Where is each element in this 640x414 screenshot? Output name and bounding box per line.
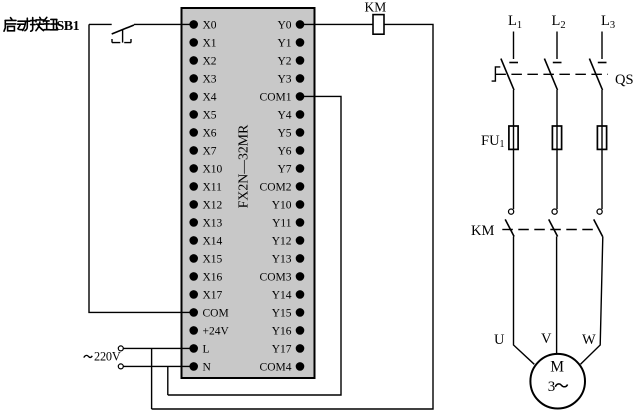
- svg-text:X12: X12: [203, 199, 223, 211]
- wire: L3 incoming lead: [601, 32, 603, 60]
- terminal Y13 (PLC output side): [272, 253, 305, 265]
- svg-text:Y11: Y11: [272, 217, 292, 229]
- terminal Y3 (PLC output side): [277, 73, 304, 85]
- QS pole 2 fixed contact bar: [553, 62, 562, 64]
- svg-text:X17: X17: [203, 289, 223, 301]
- terminal COM (PLC input side): [189, 307, 228, 319]
- svg-text:Y17: Y17: [272, 343, 292, 355]
- node L1 (phase label): [508, 13, 522, 31]
- svg-text:3: 3: [548, 379, 556, 395]
- PLC model label FX2N-32MR: [236, 124, 251, 208]
- terminal X7 (PLC input side): [189, 145, 216, 157]
- terminal +24V (PLC input side): [189, 325, 229, 337]
- terminal X5 (PLC input side): [189, 109, 216, 121]
- terminal Y12 (PLC output side): [272, 235, 305, 247]
- label KM (coil): [365, 0, 387, 15]
- svg-text:Y10: Y10: [272, 199, 292, 211]
- svg-text:Y6: Y6: [277, 145, 291, 157]
- svg-text:X4: X4: [203, 91, 217, 103]
- svg-text:Y5: Y5: [277, 127, 291, 139]
- svg-text:COM2: COM2: [260, 181, 292, 193]
- terminal Y14 (PLC output side): [272, 289, 305, 301]
- svg-text:COM: COM: [203, 307, 229, 319]
- terminal X3 (PLC input side): [189, 73, 216, 85]
- terminal X0 (PLC input side): [189, 19, 216, 31]
- svg-text:Y14: Y14: [272, 289, 292, 301]
- terminal X17 (PLC input side): [189, 289, 222, 301]
- wire: QS pole 3 to fuse FU1-3: [601, 90, 603, 126]
- svg-text:M: M: [550, 359, 564, 376]
- terminal COM2 (PLC output side): [260, 181, 305, 193]
- terminal COM3 (PLC output side): [260, 271, 305, 283]
- terminal X16 (PLC input side): [189, 271, 222, 283]
- terminal X10 (PLC input side): [189, 163, 222, 175]
- terminal Y15 (PLC output side): [272, 307, 305, 319]
- terminal X6 (PLC input side): [189, 127, 216, 139]
- svg-text:X11: X11: [203, 181, 223, 193]
- svg-text:X6: X6: [203, 127, 217, 139]
- svg-text:X5: X5: [203, 109, 217, 121]
- svg-text:KM: KM: [471, 223, 494, 239]
- fuse FU1-2: [552, 126, 561, 149]
- svg-text:V: V: [541, 331, 552, 347]
- svg-text:W: W: [582, 332, 596, 348]
- svg-text:Y4: Y4: [277, 109, 291, 121]
- svg-text:L3: L3: [601, 13, 615, 31]
- terminal COM4 (PLC output side): [260, 361, 305, 373]
- terminal Y4 (PLC output side): [277, 109, 304, 121]
- KM main contact 3 fixed terminal circle: [597, 209, 602, 214]
- supply terminal node (N neutral): [118, 364, 123, 369]
- wire: KM contact 3 to motor terminal W: [581, 237, 603, 365]
- svg-text:FX2N—32MR: FX2N—32MR: [236, 124, 251, 208]
- terminal Y10 (PLC output side): [272, 199, 305, 211]
- motor M 3-phase: [530, 354, 585, 409]
- pushbutton SB1 (NO momentary): [112, 25, 134, 43]
- terminal L (PLC input side): [189, 343, 209, 355]
- wire: QS pole 1 to fuse FU1-1: [513, 90, 515, 126]
- svg-text:+24V: +24V: [203, 325, 230, 337]
- terminal X15 (PLC input side): [189, 253, 222, 265]
- svg-text:220V: 220V: [94, 349, 121, 363]
- terminal X2 (PLC input side): [189, 55, 216, 67]
- wire: L2 incoming lead: [556, 32, 558, 60]
- QS pole 1 blade: [501, 59, 514, 90]
- label: start button SB1 (Chinese qi dong an niu SB1): [4, 17, 58, 31]
- svg-text:Y13: Y13: [272, 253, 292, 265]
- KM main contact 2 fixed terminal circle: [552, 209, 557, 214]
- wire: phase branch down to bottom bus: [151, 348, 153, 409]
- QS pole 1 fixed contact bar: [509, 62, 518, 64]
- terminal Y16 (PLC output side): [272, 325, 305, 337]
- wire: KM contact 2 to motor terminal V: [556, 237, 558, 355]
- svg-text:QS: QS: [615, 72, 634, 88]
- terminal Y17 (PLC output side): [272, 343, 305, 355]
- wire: SB1 left lead from corner to button contact: [89, 23, 112, 25]
- svg-text:FU1: FU1: [481, 133, 505, 150]
- terminal Y1 (PLC output side): [277, 37, 304, 49]
- wire: KM contact 1 to motor terminal U: [514, 237, 535, 365]
- label U (motor terminal): [494, 332, 505, 348]
- svg-text:COM1: COM1: [260, 91, 292, 103]
- svg-text:Y3: Y3: [277, 73, 291, 85]
- wire: phase terminal to L pin: [124, 347, 194, 349]
- terminal Y11 (PLC output side): [272, 217, 304, 229]
- QS linkage dashed line: [495, 73, 608, 75]
- svg-text:Y1: Y1: [277, 37, 291, 49]
- wire: KM coil to right bus, down and across bottom to phase branch: [152, 24, 433, 409]
- QS operating handle hook: [492, 67, 501, 81]
- KM contacts linkage dashed line: [502, 229, 598, 231]
- PLC U1 FX2N-32MR body: [182, 8, 315, 378]
- KM main contact 2 blade: [549, 219, 558, 236]
- terminal X1 (PLC input side): [189, 37, 216, 49]
- label FU1 (fuse group): [481, 133, 505, 150]
- node L3 (phase label): [601, 13, 615, 31]
- svg-text:L: L: [203, 343, 210, 355]
- terminal X14 (PLC input side): [189, 235, 222, 247]
- contactor coil KM: [373, 15, 384, 35]
- svg-text:Y15: Y15: [272, 307, 292, 319]
- svg-text:COM3: COM3: [260, 271, 292, 283]
- terminal X11 (PLC input side): [189, 181, 222, 193]
- KM main contact 1 fixed terminal circle: [509, 209, 514, 214]
- svg-text:X7: X7: [203, 145, 217, 157]
- svg-text:N: N: [203, 361, 212, 373]
- wire: fuse FU1-3 to KM contact 3: [601, 149, 603, 209]
- terminal X4 (PLC input side): [189, 91, 216, 103]
- svg-text:X16: X16: [203, 271, 223, 283]
- svg-text:X15: X15: [203, 253, 223, 265]
- svg-text:X3: X3: [203, 73, 217, 85]
- svg-text:X10: X10: [203, 163, 223, 175]
- terminal N (PLC input side): [189, 361, 211, 373]
- label ~220V: [84, 349, 121, 363]
- svg-text:Y12: Y12: [272, 235, 292, 247]
- label V (motor terminal): [541, 331, 552, 347]
- svg-text:X14: X14: [203, 235, 223, 247]
- svg-text:COM4: COM4: [260, 361, 292, 373]
- svg-text:Y7: Y7: [277, 163, 291, 175]
- terminal Y7 (PLC output side): [277, 163, 304, 175]
- wire: SB1 to X0: [134, 23, 194, 25]
- wire: SB1 down-leg to COM: [89, 24, 194, 312]
- terminal COM1 (PLC output side): [260, 91, 305, 103]
- wire: L1 incoming lead: [513, 32, 515, 60]
- KM main contact 3 blade: [594, 219, 603, 236]
- svg-text:Y2: Y2: [277, 55, 291, 67]
- wire: neutral branch down to COM1 return bus: [167, 366, 169, 395]
- wire: COM1 to return bus, down and across to neutral branch: [168, 96, 341, 395]
- wire: QS pole 2 to fuse FU1-2: [556, 90, 558, 126]
- label KM (main contacts): [471, 223, 494, 239]
- svg-text:X1: X1: [203, 37, 217, 49]
- label QS: [615, 72, 634, 88]
- terminal Y5 (PLC output side): [277, 127, 304, 139]
- svg-text:X0: X0: [203, 19, 217, 31]
- QS pole 2 blade: [544, 59, 557, 90]
- fuse FU1-3: [597, 126, 606, 149]
- wire: neutral terminal to N pin: [124, 365, 194, 367]
- terminal X12 (PLC input side): [189, 199, 222, 211]
- fuse FU1-1: [509, 126, 518, 149]
- terminal Y0 (PLC output side): [277, 19, 304, 31]
- supply terminal node (L phase): [118, 346, 123, 351]
- svg-text:X13: X13: [203, 217, 223, 229]
- svg-text:L2: L2: [552, 13, 566, 31]
- wire: fuse FU1-1 to KM contact 1: [513, 149, 515, 209]
- terminal Y2 (PLC output side): [277, 55, 304, 67]
- svg-text:X2: X2: [203, 55, 217, 67]
- label W (motor terminal): [582, 332, 596, 348]
- svg-text:Y0: Y0: [277, 19, 291, 31]
- node L2 (phase label): [552, 13, 566, 31]
- wire: Y0 to KM coil: [300, 23, 373, 25]
- svg-text:Y16: Y16: [272, 325, 292, 337]
- svg-text:KM: KM: [365, 0, 387, 15]
- svg-text:SB1: SB1: [57, 19, 80, 34]
- QS pole 3 fixed contact bar: [598, 62, 607, 64]
- QS pole 3 blade: [589, 59, 602, 90]
- terminal Y6 (PLC output side): [277, 145, 304, 157]
- KM main contact 1 blade: [505, 219, 514, 236]
- svg-text:U: U: [494, 332, 505, 348]
- svg-text:L1: L1: [508, 13, 522, 31]
- terminal X13 (PLC input side): [189, 217, 222, 229]
- wire: fuse FU1-2 to KM contact 2: [556, 149, 558, 209]
